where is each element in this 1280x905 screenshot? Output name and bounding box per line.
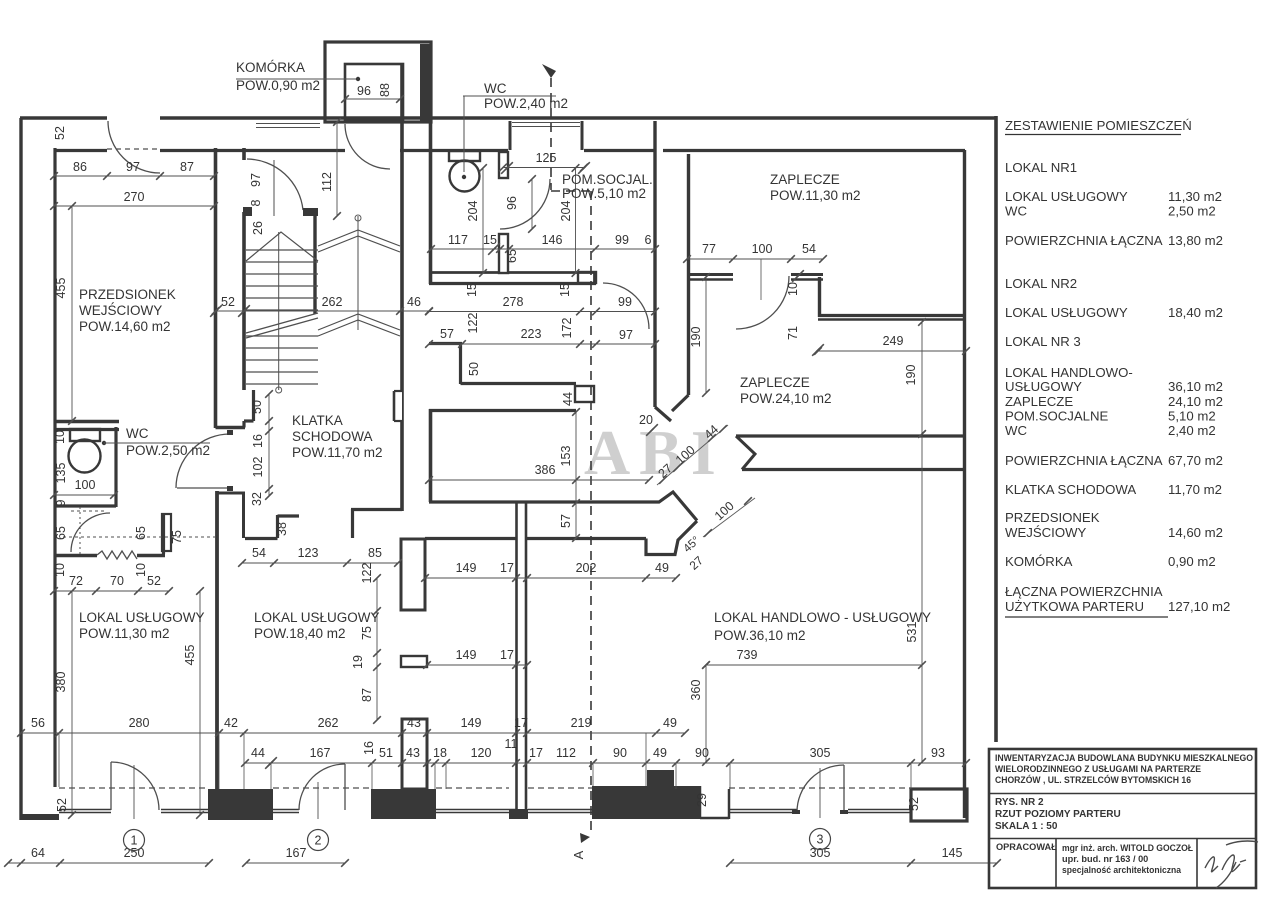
svg-text:mgr inż. arch. WITOLD GOCZOŁ: mgr inż. arch. WITOLD GOCZOŁ: [1062, 843, 1193, 853]
svg-text:100: 100: [712, 499, 737, 523]
svg-text:38: 38: [275, 522, 289, 536]
svg-text:455: 455: [54, 278, 68, 299]
svg-text:46: 46: [407, 295, 421, 309]
svg-text:LOKAL NR2: LOKAL NR2: [1005, 276, 1077, 291]
svg-text:125: 125: [536, 151, 557, 165]
svg-text:123: 123: [298, 546, 319, 560]
svg-text:26: 26: [251, 221, 265, 235]
svg-text:LOKAL HANDLOWO - USŁUGOWY: LOKAL HANDLOWO - USŁUGOWY: [714, 610, 931, 625]
svg-text:0,90 m2: 0,90 m2: [1168, 554, 1216, 569]
svg-text:A: A: [571, 850, 586, 859]
svg-text:146: 146: [542, 233, 563, 247]
svg-text:POW.18,40 m2: POW.18,40 m2: [254, 626, 346, 641]
svg-text:202: 202: [576, 561, 597, 575]
svg-text:270: 270: [124, 190, 145, 204]
svg-text:5,10 m2: 5,10 m2: [1168, 409, 1216, 424]
svg-text:278: 278: [503, 295, 524, 309]
svg-text:49: 49: [655, 561, 669, 575]
svg-text:262: 262: [318, 716, 339, 730]
svg-text:50: 50: [467, 362, 481, 376]
svg-text:100: 100: [75, 478, 96, 492]
svg-text:ZESTAWIENIE POMIESZCZEŃ: ZESTAWIENIE POMIESZCZEŃ: [1005, 118, 1192, 133]
svg-text:RZUT POZIOMY PARTERU: RZUT POZIOMY PARTERU: [995, 809, 1121, 820]
svg-text:POW.2,50 m2: POW.2,50 m2: [126, 443, 210, 458]
svg-text:WC: WC: [1005, 204, 1027, 219]
svg-text:87: 87: [360, 688, 374, 702]
svg-text:16: 16: [251, 434, 265, 448]
svg-text:167: 167: [286, 846, 307, 860]
svg-text:36,10 m2: 36,10 m2: [1168, 379, 1223, 394]
svg-text:17: 17: [529, 746, 543, 760]
svg-text:11,30 m2: 11,30 m2: [1168, 189, 1222, 204]
svg-text:88: 88: [378, 83, 392, 97]
svg-text:204: 204: [559, 201, 573, 222]
svg-text:POW.14,60 m2: POW.14,60 m2: [79, 319, 171, 334]
svg-text:18: 18: [433, 746, 447, 760]
svg-text:POW.0,90 m2: POW.0,90 m2: [236, 78, 320, 93]
svg-text:POW.11,30 m2: POW.11,30 m2: [79, 626, 170, 641]
svg-text:122: 122: [360, 563, 374, 584]
svg-text:75: 75: [170, 530, 184, 544]
svg-text:1: 1: [131, 834, 138, 848]
svg-text:167: 167: [310, 746, 331, 760]
svg-text:PRZEDSIONEK: PRZEDSIONEK: [1005, 510, 1100, 525]
svg-text:52: 52: [55, 798, 69, 812]
svg-text:96: 96: [357, 84, 371, 98]
svg-text:UŻYTKOWA PARTERU: UŻYTKOWA PARTERU: [1005, 599, 1144, 614]
svg-text:219: 219: [571, 716, 592, 730]
svg-text:POWIERZCHNIA ŁĄCZNA: POWIERZCHNIA ŁĄCZNA: [1005, 233, 1163, 248]
svg-text:SCHODOWA: SCHODOWA: [292, 429, 373, 444]
svg-text:9: 9: [54, 499, 68, 506]
svg-text:17: 17: [500, 561, 514, 575]
svg-text:PRZEDSIONEK: PRZEDSIONEK: [79, 287, 176, 302]
svg-text:specjalność architektoniczna: specjalność architektoniczna: [1062, 865, 1182, 875]
svg-text:LOKAL USŁUGOWY: LOKAL USŁUGOWY: [254, 610, 380, 625]
svg-text:120: 120: [471, 746, 492, 760]
svg-text:19: 19: [351, 655, 365, 669]
svg-text:87: 87: [180, 160, 194, 174]
svg-text:386: 386: [535, 463, 556, 477]
svg-text:172: 172: [560, 318, 574, 339]
svg-text:71: 71: [786, 326, 800, 340]
svg-text:WC: WC: [126, 426, 149, 441]
svg-text:8: 8: [249, 199, 263, 206]
svg-text:KLATKA: KLATKA: [292, 413, 343, 428]
svg-text:32: 32: [250, 492, 264, 506]
svg-text:77: 77: [702, 242, 716, 256]
svg-text:56: 56: [31, 716, 45, 730]
svg-text:POW.2,40 m2: POW.2,40 m2: [484, 96, 568, 111]
svg-text:360: 360: [689, 680, 703, 701]
svg-text:65: 65: [54, 526, 68, 540]
svg-text:10: 10: [134, 563, 148, 577]
svg-text:262: 262: [322, 295, 343, 309]
svg-text:75: 75: [360, 626, 374, 640]
svg-text:LOKAL USŁUGOWY: LOKAL USŁUGOWY: [1005, 189, 1128, 204]
svg-text:85: 85: [368, 546, 382, 560]
svg-text:15: 15: [465, 283, 479, 297]
svg-text:17: 17: [500, 648, 514, 662]
svg-text:57: 57: [440, 327, 454, 341]
svg-text:67,70 m2: 67,70 m2: [1168, 453, 1223, 468]
svg-text:11: 11: [505, 737, 518, 751]
svg-text:43: 43: [407, 716, 421, 730]
svg-text:455: 455: [183, 645, 197, 666]
svg-text:POW.11,70 m2: POW.11,70 m2: [292, 445, 383, 460]
svg-text:50: 50: [250, 400, 264, 414]
svg-text:3: 3: [817, 833, 824, 847]
svg-text:90: 90: [695, 746, 709, 760]
svg-text:57: 57: [559, 514, 573, 528]
svg-text:INWENTARYZACJA BUDOWLANA BUDYN: INWENTARYZACJA BUDOWLANA BUDYNKU MIESZKA…: [995, 753, 1253, 763]
svg-text:65: 65: [505, 249, 519, 263]
svg-text:204: 204: [466, 201, 480, 222]
svg-text:64: 64: [31, 846, 45, 860]
svg-text:54: 54: [252, 546, 266, 560]
svg-text:KLATKA SCHODOWA: KLATKA SCHODOWA: [1005, 482, 1136, 497]
svg-text:65: 65: [134, 526, 148, 540]
svg-text:15: 15: [558, 283, 572, 297]
svg-text:112: 112: [320, 172, 334, 192]
svg-text:44: 44: [561, 392, 575, 406]
svg-text:2,40 m2: 2,40 m2: [1168, 423, 1216, 438]
svg-text:KOMÓRKA: KOMÓRKA: [236, 60, 305, 75]
svg-text:15: 15: [483, 233, 497, 247]
svg-text:70: 70: [110, 574, 124, 588]
svg-text:upr. bud. nr 163 / 00: upr. bud. nr 163 / 00: [1062, 854, 1148, 864]
svg-text:LOKAL NR1: LOKAL NR1: [1005, 160, 1077, 175]
svg-text:WEJŚCIOWY: WEJŚCIOWY: [1005, 525, 1087, 540]
svg-text:190: 190: [689, 327, 703, 348]
svg-text:49: 49: [653, 746, 667, 760]
svg-text:280: 280: [129, 716, 150, 730]
svg-text:149: 149: [456, 648, 477, 662]
svg-text:16: 16: [362, 741, 376, 755]
svg-text:6: 6: [645, 233, 652, 247]
svg-text:POW.5,10 m2: POW.5,10 m2: [562, 186, 646, 201]
svg-text:153: 153: [559, 446, 573, 467]
svg-text:739: 739: [737, 648, 758, 662]
svg-text:SKALA 1 : 50: SKALA 1 : 50: [995, 821, 1058, 832]
svg-text:149: 149: [456, 561, 477, 575]
svg-text:17: 17: [514, 716, 528, 730]
svg-text:305: 305: [810, 846, 831, 860]
svg-text:44: 44: [251, 746, 265, 760]
svg-text:190: 190: [904, 365, 918, 386]
svg-text:149: 149: [461, 716, 482, 730]
svg-text:29: 29: [695, 793, 709, 807]
svg-text:93: 93: [931, 746, 945, 760]
svg-text:LOKAL USŁUGOWY: LOKAL USŁUGOWY: [79, 610, 205, 625]
svg-text:100: 100: [752, 242, 773, 256]
svg-text:13,80 m2: 13,80 m2: [1168, 233, 1223, 248]
svg-text:10: 10: [786, 282, 800, 296]
svg-text:WC: WC: [1005, 423, 1027, 438]
svg-text:122: 122: [466, 313, 480, 334]
svg-text:27: 27: [687, 553, 707, 573]
svg-text:POW.11,30 m2: POW.11,30 m2: [770, 188, 861, 203]
svg-text:52: 52: [147, 574, 161, 588]
svg-text:97: 97: [126, 160, 140, 174]
svg-text:117: 117: [448, 233, 468, 247]
svg-text:POW.24,10 m2: POW.24,10 m2: [740, 391, 832, 406]
svg-text:97: 97: [249, 173, 263, 187]
svg-text:10: 10: [53, 430, 67, 444]
svg-text:LOKAL USŁUGOWY: LOKAL USŁUGOWY: [1005, 305, 1128, 320]
svg-text:OPRACOWAŁ: OPRACOWAŁ: [996, 842, 1057, 852]
svg-text:USŁUGOWY: USŁUGOWY: [1005, 379, 1082, 394]
svg-text:WEJŚCIOWY: WEJŚCIOWY: [79, 303, 162, 318]
svg-text:LOKAL HANDLOWO-: LOKAL HANDLOWO-: [1005, 365, 1133, 380]
svg-text:42: 42: [224, 716, 238, 730]
svg-text:99: 99: [618, 295, 632, 309]
svg-text:24,10 m2: 24,10 m2: [1168, 394, 1223, 409]
svg-text:ZAPLECZE: ZAPLECZE: [770, 172, 840, 187]
svg-text:18,40 m2: 18,40 m2: [1168, 305, 1223, 320]
svg-text:POWIERZCHNIA ŁĄCZNA: POWIERZCHNIA ŁĄCZNA: [1005, 453, 1163, 468]
svg-text:2: 2: [315, 834, 322, 848]
svg-text:54: 54: [802, 242, 816, 256]
svg-text:KOMÓRKA: KOMÓRKA: [1005, 554, 1073, 569]
svg-text:99: 99: [615, 233, 629, 247]
svg-text:POM.SOCJAL.: POM.SOCJAL.: [562, 172, 653, 187]
svg-text:145: 145: [942, 846, 963, 860]
svg-text:20: 20: [639, 413, 653, 427]
svg-text:305: 305: [810, 746, 831, 760]
svg-text:223: 223: [521, 327, 542, 341]
svg-text:97: 97: [619, 328, 633, 342]
svg-text:LOKAL NR 3: LOKAL NR 3: [1005, 334, 1081, 349]
svg-text:51: 51: [379, 746, 393, 760]
svg-text:ZAPLECZE: ZAPLECZE: [740, 375, 810, 390]
svg-text:WC: WC: [484, 81, 507, 96]
svg-text:POM.SOCJALNE: POM.SOCJALNE: [1005, 409, 1109, 424]
svg-text:127,10 m2: 127,10 m2: [1168, 599, 1230, 614]
svg-text:86: 86: [73, 160, 87, 174]
svg-text:43: 43: [406, 746, 420, 760]
svg-text:WIELORODZINNEGO Z USŁUGAMI NA: WIELORODZINNEGO Z USŁUGAMI NA PARTERZE: [995, 764, 1201, 774]
svg-text:POW.36,10 m2: POW.36,10 m2: [714, 628, 806, 643]
svg-text:49: 49: [663, 716, 677, 730]
svg-text:10: 10: [53, 563, 67, 577]
svg-text:2,50 m2: 2,50 m2: [1168, 204, 1216, 219]
svg-text:14,60 m2: 14,60 m2: [1168, 525, 1223, 540]
svg-text:CHORZÓW , UL. STRZELCÓW BYTOMS: CHORZÓW , UL. STRZELCÓW BYTOMSKICH 16: [995, 774, 1191, 785]
svg-text:249: 249: [883, 334, 904, 348]
svg-text:RYS. NR 2: RYS. NR 2: [995, 797, 1044, 808]
svg-text:52: 52: [53, 126, 67, 140]
svg-text:ZAPLECZE: ZAPLECZE: [1005, 394, 1073, 409]
svg-text:52: 52: [221, 295, 235, 309]
svg-text:11,70 m2: 11,70 m2: [1168, 482, 1222, 497]
svg-text:380: 380: [54, 672, 68, 693]
svg-text:ŁĄCZNA POWIERZCHNIA: ŁĄCZNA POWIERZCHNIA: [1005, 584, 1163, 599]
svg-text:72: 72: [69, 574, 83, 588]
svg-text:96: 96: [505, 196, 519, 210]
svg-text:102: 102: [251, 457, 265, 478]
svg-text:112: 112: [556, 746, 576, 760]
svg-text:90: 90: [613, 746, 627, 760]
svg-text:135: 135: [54, 463, 68, 484]
svg-text:52: 52: [907, 797, 921, 811]
svg-text:45°: 45°: [682, 534, 703, 555]
